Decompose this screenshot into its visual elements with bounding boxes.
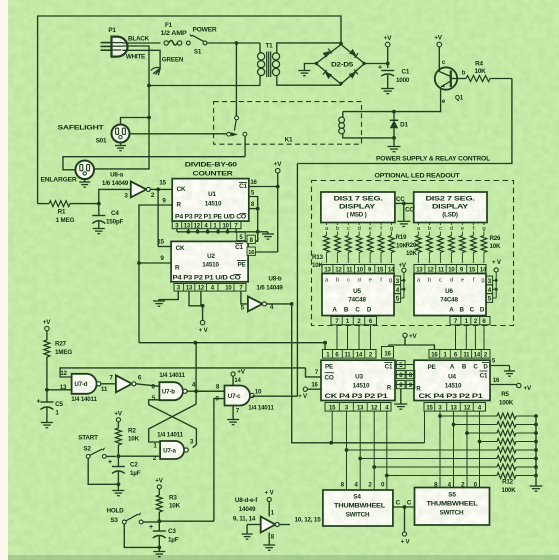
label R20 [406, 242, 418, 257]
wire U7c out [252, 395, 298, 397]
label GREEN [162, 57, 184, 64]
relay coil [339, 112, 396, 140]
IC U4 [414, 360, 490, 400]
capacitor C2 [108, 456, 141, 484]
+V R27 [43, 319, 51, 331]
wire U3 PE jog [306, 368, 322, 377]
label R13 [312, 254, 324, 269]
buffer U8-c [101, 374, 142, 392]
relay contact [227, 112, 247, 137]
wire U7b out [187, 343, 224, 393]
capacitor C5 [37, 390, 64, 428]
label WHITE [126, 54, 145, 61]
wire top sense line [38, 16, 341, 204]
wire U8a out [150, 188, 172, 192]
U2 pins 13 12 to +V [189, 291, 209, 334]
U5 bottom pins [331, 317, 377, 326]
+V terminal C1 [384, 35, 392, 68]
wire U7d in12 feedback [60, 368, 305, 377]
U8def out [279, 516, 321, 524]
wire U4 pin5 ground [490, 359, 515, 377]
NAND U7-a [153, 431, 194, 462]
U3 bottom pins [325, 403, 391, 412]
buffer U8-a [102, 172, 167, 200]
+V right displays [492, 259, 502, 272]
resistor R4 [451, 61, 512, 82]
thumbwheel common wire [393, 500, 415, 546]
wire R4 down [297, 79, 512, 164]
bridge rectifier D2-D5 [315, 42, 366, 86]
wire buf to U7b [136, 384, 160, 387]
resistors R20-R26 segment [416, 223, 487, 264]
U2 pin strip [174, 284, 246, 292]
IC U1 [172, 179, 249, 222]
bridge ground [298, 64, 316, 76]
buffer U8-d-e-f [242, 511, 280, 541]
buffer U8-a input wire [99, 189, 131, 203]
wires U5 to U3 [337, 325, 371, 350]
U8def ground2 [263, 533, 275, 551]
left page margin strip [0, 0, 8, 560]
IC U2 [171, 241, 248, 281]
wire black lead [123, 42, 161, 44]
U2 pin3 ground [153, 291, 178, 306]
+V R2 [114, 411, 122, 422]
switch S1 [186, 27, 217, 56]
wire neutral bottom [149, 85, 260, 87]
U3 U4 mid ground [394, 389, 407, 410]
+V above U1 [255, 161, 282, 252]
U4 bottom pins [424, 403, 486, 412]
capacitor C1 [378, 65, 410, 94]
resistors R13-R19 segment [324, 223, 395, 264]
display DIS2 [414, 192, 487, 223]
label HOLD [106, 508, 124, 525]
counter title [185, 162, 238, 178]
IC U6 [414, 274, 486, 316]
wire clock line [292, 304, 425, 445]
U3 top pin strip [323, 350, 377, 359]
preset bus rails [345, 414, 536, 477]
+V terminal Q1 [434, 35, 442, 47]
U6 bottom pins [450, 317, 490, 326]
diode D1 [390, 112, 409, 146]
wire U8b out junction [290, 302, 294, 306]
U4 top pin strip [429, 350, 490, 359]
S3 ground [124, 524, 165, 557]
+V between U3 U4 [389, 333, 434, 350]
U8def labels [233, 497, 258, 523]
relay K1 dashed box [214, 102, 362, 145]
wire U3 +V pin16 [298, 383, 321, 401]
IC U5 [322, 274, 394, 316]
wire U7d in13 [47, 389, 72, 391]
capacitor C3 [149, 521, 179, 547]
switch S2 [86, 447, 116, 458]
display DIS1 [321, 192, 395, 223]
switch S3 [122, 512, 157, 524]
thumbwheel columns [332, 411, 479, 490]
label BLACK [128, 36, 150, 43]
thumbwheel pin labels [341, 481, 478, 488]
enlarger outlet [41, 136, 246, 184]
thumbwheel switch S5 [415, 488, 490, 526]
wire U8b out [267, 303, 292, 305]
S2 ground [88, 458, 124, 495]
wire left to R1 [38, 203, 49, 205]
NAND U7-b [151, 372, 196, 402]
U3 U4 carry cells [395, 361, 415, 389]
wire hold to U7c [159, 520, 214, 522]
wire relay drop [235, 43, 237, 116]
+V mid displays [399, 262, 407, 272]
U1 right pins [248, 180, 280, 241]
U2 right pins [236, 229, 258, 256]
U3 pin16b cell [382, 347, 394, 359]
U1 pin strip [172, 221, 241, 229]
optional led readout box [312, 173, 514, 326]
U5 top pin strip [322, 265, 395, 274]
wire S1 to T1 [206, 41, 260, 45]
wire U4 pin16 +V [490, 378, 532, 392]
wires U6 to U4 [456, 325, 485, 350]
wire emitter rail [343, 110, 441, 114]
IC U3 [321, 360, 395, 400]
green wire chassis ground [123, 50, 161, 75]
U8def +V [264, 490, 274, 517]
D1 ground [388, 147, 401, 152]
wire PE bus [139, 341, 327, 350]
fuse F1 [161, 22, 187, 45]
transformer T1 [258, 43, 342, 86]
plug P1 [101, 27, 128, 57]
resistor R27 [44, 331, 72, 392]
latch cross wires [149, 391, 197, 448]
U5 lamp pins 3 4 5 [394, 272, 405, 302]
buffer U8-b [248, 276, 283, 312]
resistor R1 [49, 201, 101, 224]
transistor Q1 [435, 47, 466, 112]
wire relay drive vertical [296, 164, 298, 397]
resistor ladder R5-R12 [497, 391, 543, 494]
capacitor C4 [92, 204, 123, 234]
U2 CO to U8-b [241, 291, 248, 311]
wire U7a in2 [118, 455, 160, 457]
safelight outlet SO1 [58, 118, 228, 145]
label R26 [490, 235, 502, 250]
U6 top pin strip [414, 265, 487, 274]
resistor R2 [115, 422, 139, 458]
wire bridge to C1 [365, 62, 390, 66]
wire CK chain down [157, 189, 171, 246]
enlarger ground [79, 179, 90, 187]
wire U7b in8 [196, 390, 224, 392]
display common cathode [395, 196, 414, 227]
SO1 ground [115, 143, 126, 151]
wire white neutral [95, 46, 151, 169]
U7c ground [227, 406, 239, 425]
NAND U7-c [215, 378, 274, 415]
label R19 [396, 234, 408, 250]
NAND U7-d [60, 370, 108, 403]
U7c +V [231, 369, 246, 386]
U1 pins rail [177, 229, 274, 240]
label power supply section [376, 155, 490, 162]
U6 lamp pins 3 4 5 [486, 272, 498, 302]
bottom edge shading [8, 555, 559, 560]
thumbwheel switch S4 [323, 490, 393, 526]
label START [78, 435, 98, 453]
+V R3 [155, 478, 163, 490]
wire U1 R [137, 198, 172, 343]
resistor R3 [156, 489, 180, 523]
wire U7c in9 [214, 399, 225, 522]
